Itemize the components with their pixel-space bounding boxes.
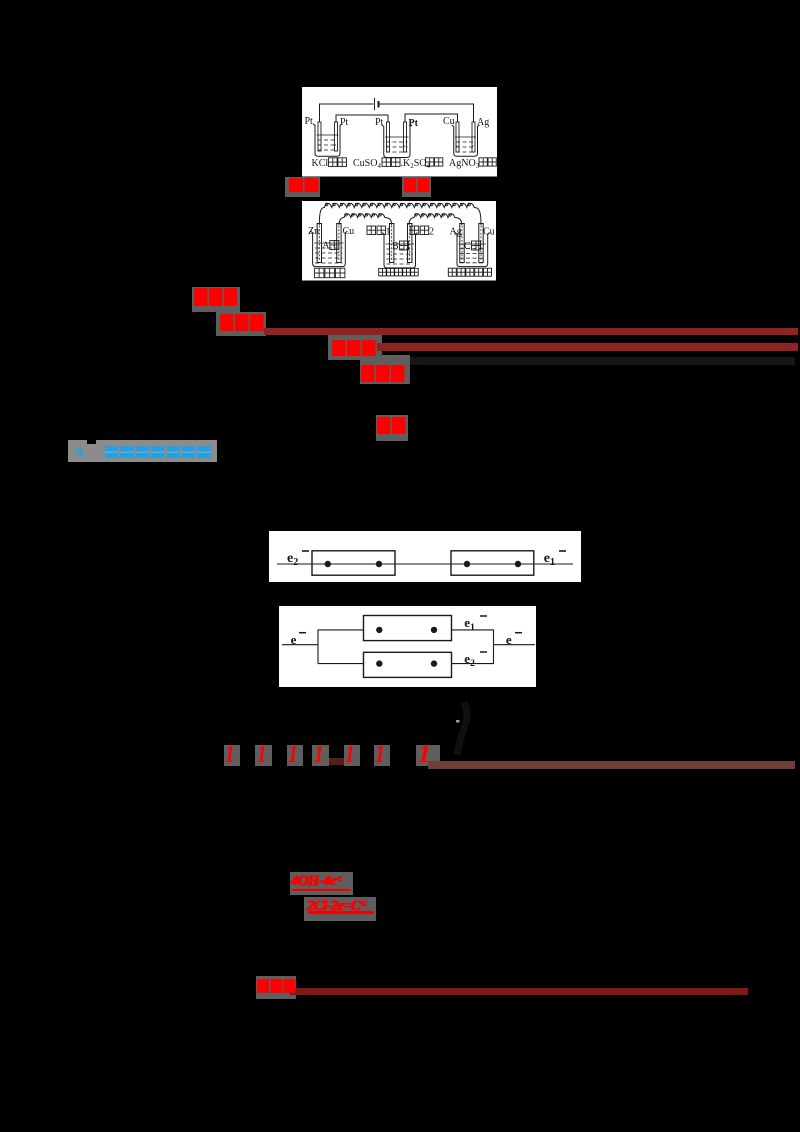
svg-text:e: e — [291, 632, 297, 647]
svg-text:Pt: Pt — [305, 116, 314, 127]
svg-text:e: e — [506, 632, 512, 647]
svg-text:Pt: Pt — [375, 117, 384, 128]
svg-text:A: A — [322, 241, 330, 252]
svg-text:Cu: Cu — [443, 116, 455, 127]
svg-text:2: 2 — [429, 227, 434, 238]
svg-text:CuSO4: CuSO4 — [353, 158, 381, 170]
svg-text:Ag: Ag — [477, 117, 489, 128]
svg-text:KCl: KCl — [312, 158, 329, 169]
svg-text:.K2SO4: .K2SO4 — [401, 158, 431, 170]
svg-text:C: C — [464, 241, 471, 252]
svg-text:Zn: Zn — [308, 226, 319, 237]
svg-text:1: 1 — [386, 227, 391, 238]
svg-text:Cu: Cu — [483, 227, 495, 238]
svg-text:B: B — [392, 241, 399, 252]
svg-text:AgNO3: AgNO3 — [449, 158, 480, 170]
svg-text:Pt: Pt — [340, 117, 349, 128]
svg-text:Ag: Ag — [450, 227, 462, 238]
svg-text:Pt: Pt — [409, 118, 419, 129]
svg-text:Cu: Cu — [343, 226, 355, 237]
